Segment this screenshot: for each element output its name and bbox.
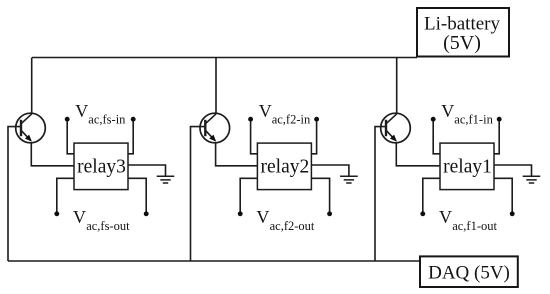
wire: relay1 to Vac,f1-out right terminal	[494, 178, 512, 214]
wire: Q1 emitter to relay1 input	[396, 142, 440, 166]
label: Vac,fs-out output voltage	[73, 207, 130, 233]
wire: DAQ bottom bus to transistor bases	[8, 260, 420, 262]
wire: Vac,f2-in right terminal to relay2	[311, 119, 316, 154]
svg-text:V: V	[73, 207, 86, 227]
node: Vac,f1-in right terminal	[497, 117, 502, 122]
wire: bottom bus to Q3 base	[8, 127, 21, 261]
svg-text:V: V	[259, 101, 272, 121]
svg-text:V: V	[441, 101, 454, 121]
ground (earth symbol) for relay3	[157, 176, 175, 183]
svg-text:V: V	[75, 101, 88, 121]
wire: relay1 to Vac,f1-out left terminal	[423, 178, 440, 214]
node: Vac,f2-out left terminal	[238, 211, 243, 216]
svg-text:ac,fs-out: ac,fs-out	[86, 219, 130, 233]
svg-text:ac,f1-in: ac,f1-in	[454, 112, 493, 126]
svg-text:V: V	[256, 207, 269, 227]
transistor Q2 (NPN, drives relay2)	[200, 113, 230, 143]
wire: top bus to Q2 collector	[215, 58, 217, 114]
wire: bottom bus to Q1 base	[375, 127, 386, 261]
wire: relay1 to ground	[494, 165, 532, 176]
label: Vac,f1-in input voltage	[441, 101, 493, 127]
node: Vac,f2-in left terminal	[248, 117, 253, 122]
svg-text:(5V): (5V)	[443, 32, 481, 54]
wire: top bus to Q3 collector	[31, 58, 33, 114]
transistor Q1 (NPN, drives relay1)	[381, 113, 411, 143]
ground (earth symbol) for relay2	[340, 176, 358, 183]
node: Vac,f1-out left terminal	[420, 211, 425, 216]
relay relay2 box	[257, 143, 311, 190]
relay relay1 box	[440, 143, 494, 190]
wire: bottom bus to Q2 base	[191, 127, 206, 261]
wire: Vac,f1-in left terminal to relay1	[433, 119, 440, 154]
wire: Vac,f2-in left terminal to relay2	[251, 119, 258, 154]
wire: relay3 to Vac,fs-out right terminal	[128, 178, 146, 214]
node: Vac,fs-in left terminal	[65, 117, 70, 122]
node: Vac,f1-out right terminal	[510, 211, 515, 216]
ground (earth symbol) for relay1	[523, 176, 541, 183]
label: Vac,f2-out output voltage	[256, 207, 314, 233]
DAQ (5V) data acquisition box	[420, 256, 518, 287]
label: Vac,f1-out output voltage	[439, 207, 497, 233]
node: Vac,fs-in right terminal	[131, 117, 136, 122]
wire: +5V top bus from Li-battery to transistor collectors	[32, 57, 417, 59]
transistor Q3 (NPN, drives relay3)	[16, 113, 46, 143]
wire: Vac,fs-in left terminal to relay3	[67, 119, 74, 154]
wire: Vac,f1-in right terminal to relay1	[494, 119, 499, 154]
wire: Q3 emitter to relay3 input	[31, 142, 74, 166]
svg-text:DAQ (5V): DAQ (5V)	[428, 262, 510, 283]
node: Vac,f2-out right terminal	[327, 211, 332, 216]
svg-text:relay1: relay1	[443, 156, 492, 177]
label: Vac,fs-in input voltage	[75, 101, 126, 127]
wire: top bus to Q1 collector	[396, 58, 398, 114]
wire: relay2 to ground	[311, 165, 349, 176]
label: Vac,f2-in input voltage	[259, 101, 311, 127]
svg-text:ac,f2-in: ac,f2-in	[272, 112, 311, 126]
wire: relay3 to ground	[128, 165, 166, 176]
wire: relay2 to Vac,f2-out right terminal	[311, 178, 329, 214]
node: Vac,f2-in right terminal	[314, 117, 319, 122]
relay relay3 box	[74, 143, 128, 190]
wire: relay2 to Vac,f2-out left terminal	[240, 178, 257, 214]
wire: relay3 to Vac,fs-out left terminal	[57, 178, 74, 214]
svg-text:ac,fs-in: ac,fs-in	[88, 112, 126, 126]
node: Vac,f1-in left terminal	[431, 117, 436, 122]
wire: Q2 emitter to relay2 input	[216, 142, 258, 166]
node: Vac,fs-out left terminal	[54, 211, 59, 216]
node: Vac,fs-out right terminal	[144, 211, 149, 216]
wire: Vac,fs-in right terminal to relay3	[128, 119, 133, 154]
svg-text:relay3: relay3	[77, 156, 126, 177]
svg-text:ac,f2-out: ac,f2-out	[270, 219, 315, 233]
battery: Li-battery (5V) supply box	[417, 8, 509, 57]
svg-text:V: V	[439, 207, 452, 227]
svg-text:ac,f1-out: ac,f1-out	[452, 219, 497, 233]
svg-text:relay2: relay2	[261, 156, 310, 177]
